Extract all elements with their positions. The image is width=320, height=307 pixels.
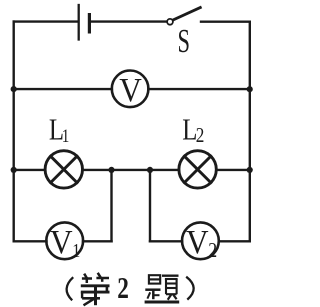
svg-text:V: V: [50, 224, 73, 261]
label V2 of voltmeter U3: [186, 224, 217, 263]
wire top left segment: [14, 20, 78, 22]
svg-text:1: 1: [62, 125, 70, 146]
node junction left voltmeter row: [11, 86, 17, 92]
label L2: [182, 113, 204, 148]
voltmeter U2 (V1) circle: [46, 222, 83, 259]
wire V1 loop bottom right: [83, 240, 112, 242]
caption character di (第): [81, 273, 110, 306]
svg-text:V: V: [119, 72, 142, 109]
svg-text:2: 2: [196, 125, 205, 148]
wire lamp row left: [14, 169, 46, 171]
label L1: [49, 113, 69, 147]
caption close paren: [186, 277, 193, 300]
svg-text:S: S: [177, 22, 189, 60]
wire V1 branch right vertical: [110, 170, 112, 241]
svg-text:2: 2: [208, 240, 217, 263]
wire V1 loop bottom left: [14, 240, 47, 242]
node junction left lamp row: [11, 167, 17, 173]
wire lamp row right: [216, 169, 250, 171]
wire battery to switch: [91, 20, 167, 22]
voltmeter U3 (V2) circle: [182, 222, 219, 259]
switch S: [167, 8, 200, 25]
caption character ti (题): [145, 275, 180, 302]
svg-text:2: 2: [117, 271, 129, 305]
node junction right voltmeter row: [247, 86, 253, 92]
wire switch to top-right corner: [201, 21, 250, 23]
node junction right lamp row: [247, 167, 253, 173]
wire V2 branch left vertical: [149, 170, 151, 241]
wire left rail: [12, 22, 14, 242]
wire lamp row middle: [82, 169, 179, 171]
caption open paren: [67, 277, 74, 300]
svg-text:1: 1: [72, 239, 80, 261]
wire voltmeter row right: [148, 88, 250, 90]
lamp L2: [179, 151, 216, 188]
voltmeter U1 circle: [112, 71, 149, 108]
lamp L1: [45, 151, 82, 188]
node junction L2 left: [147, 167, 153, 173]
wire V2 loop bottom right: [219, 240, 250, 242]
wire voltmeter row left: [14, 88, 112, 90]
wire right rail: [249, 22, 251, 242]
svg-text:V: V: [186, 224, 209, 261]
wire V2 loop bottom left: [150, 240, 182, 242]
node junction L1 right: [108, 167, 114, 173]
label V1 of voltmeter U2: [50, 224, 80, 262]
battery B1: [79, 5, 91, 40]
